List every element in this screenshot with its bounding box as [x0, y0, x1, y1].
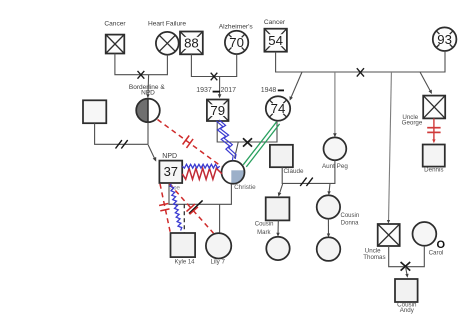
svg-text:NPD: NPD	[141, 90, 155, 97]
square deceased grandfather Cancer	[106, 35, 125, 54]
square Uncle George deceased	[423, 96, 445, 119]
blue zigzag Joe to Kyle	[170, 184, 182, 231]
svg-text:George: George	[402, 120, 423, 127]
adopted child arrow to 79	[219, 77, 221, 97]
child line to Aunt Peg	[334, 72, 336, 136]
red dashed cutoff line Nancy to Christie	[158, 120, 222, 167]
dashed child line to Kyle	[183, 204, 185, 232]
svg-text:Mark: Mark	[257, 230, 271, 236]
divorce X on Thomas-Carol line	[401, 262, 411, 271]
divorce X on 88-70 line	[211, 73, 218, 81]
svg-text:Cancer: Cancer	[264, 19, 286, 26]
svg-text:Carol: Carol	[429, 250, 444, 257]
svg-text:Claude: Claude	[284, 168, 304, 175]
marriage line father-Nancy with separation slashes	[95, 122, 148, 144]
svg-text:93: 93	[437, 32, 452, 47]
child line Donna to daughter circle	[327, 219, 329, 236]
square 54 deceased	[264, 29, 287, 52]
svg-text:Thomas: Thomas	[363, 254, 385, 261]
divorce X on 54-93 line	[357, 68, 364, 76]
marriage line 79-74	[217, 121, 277, 142]
svg-text:Christie: Christie	[234, 184, 256, 191]
svg-text:88: 88	[184, 36, 199, 51]
svg-text:Cousin: Cousin	[255, 221, 274, 227]
svg-text:NPD: NPD	[162, 153, 177, 160]
square Kyle	[171, 233, 196, 257]
circle Carol	[413, 222, 437, 246]
svg-text:Andy: Andy	[400, 307, 415, 314]
red cutoff line George to Dennis	[433, 118, 435, 141]
svg-text:Kyle 14: Kyle 14	[174, 259, 195, 265]
red dashed cutoff Joe to Kyle	[160, 184, 170, 233]
svg-text:Heart Failure: Heart Failure	[148, 20, 186, 27]
marriage line 88-70	[191, 54, 236, 76]
green harmony double line Christie to 74	[243, 122, 276, 165]
svg-text:Donna: Donna	[341, 220, 359, 226]
svg-text:Lily 7: Lily 7	[210, 258, 225, 265]
circle Mark's daughter	[266, 237, 289, 260]
svg-text:79: 79	[210, 103, 225, 118]
svg-text:54: 54	[268, 33, 283, 48]
marriage line Cancer-HeartFailure	[115, 54, 167, 75]
child line to Lily	[219, 204, 221, 233]
child arrow to Cousin Mark	[279, 184, 283, 195]
circle Donna's daughter	[317, 237, 341, 261]
svg-text:Cousin: Cousin	[341, 213, 360, 219]
child arrow to Cousin Donna	[329, 183, 330, 193]
child line to Nancy	[147, 75, 150, 98]
blue zigzag Joe-Christie	[182, 164, 219, 168]
circle Cousin Donna	[317, 195, 340, 218]
blue double zigzag 79 to Christie	[216, 121, 233, 160]
red conflict zigzag Joe-Christie	[182, 168, 222, 179]
adopted child arrow to 74	[290, 72, 302, 99]
circle 70 Alzheimer's	[225, 31, 248, 54]
child line to Christie	[235, 142, 239, 158]
marriage line Joe-Christie	[169, 183, 231, 204]
marriage line Claude-AuntPeg with separation slashes	[282, 160, 335, 183]
child line to Uncle Thomas	[389, 72, 392, 222]
svg-text:Cancer: Cancer	[104, 20, 126, 27]
square Cousin Andy	[395, 279, 418, 302]
adopted child arrow to Uncle George	[420, 72, 431, 93]
circle 93 deceased	[433, 27, 457, 51]
child arrow line to Joe 37	[148, 145, 155, 160]
svg-text:70: 70	[229, 35, 244, 50]
svg-text:1948: 1948	[261, 87, 277, 94]
square Cousin Mark	[266, 197, 290, 220]
circle Aunt Peg	[324, 137, 347, 160]
svg-text:1937: 1937	[196, 87, 212, 94]
circle Lily	[206, 233, 231, 258]
divorce X on Cancer-HeartFailure line	[138, 71, 145, 79]
marriage line 54-93	[276, 51, 445, 72]
square 37 Joe	[159, 161, 182, 183]
svg-text:74: 74	[271, 101, 286, 116]
child arrow to Cousin Andy	[406, 267, 408, 276]
divorce X on 79-74 line	[243, 138, 252, 146]
separation slash on Joe-Christie line	[189, 200, 203, 213]
child line Mark to daughter circle	[277, 220, 279, 235]
square Uncle Thomas deceased	[378, 224, 400, 246]
marriage line Thomas-Carol	[389, 246, 425, 267]
circle 74 deceased	[266, 96, 290, 120]
square Dennis	[423, 145, 445, 167]
svg-text:Alzheimer's: Alzheimer's	[219, 24, 254, 31]
svg-text:Dennis: Dennis	[424, 167, 443, 174]
square Joe's father	[83, 100, 106, 123]
red dashed cutoff Joe to Lily	[170, 184, 214, 233]
circle Nancy half-filled	[136, 99, 160, 123]
circle deceased grandmother Heart Failure	[156, 32, 179, 55]
square Claude	[270, 145, 293, 167]
square 88	[180, 32, 203, 55]
svg-text:2017: 2017	[221, 87, 237, 94]
square 79 deceased	[207, 100, 229, 122]
svg-text:37: 37	[164, 164, 178, 179]
